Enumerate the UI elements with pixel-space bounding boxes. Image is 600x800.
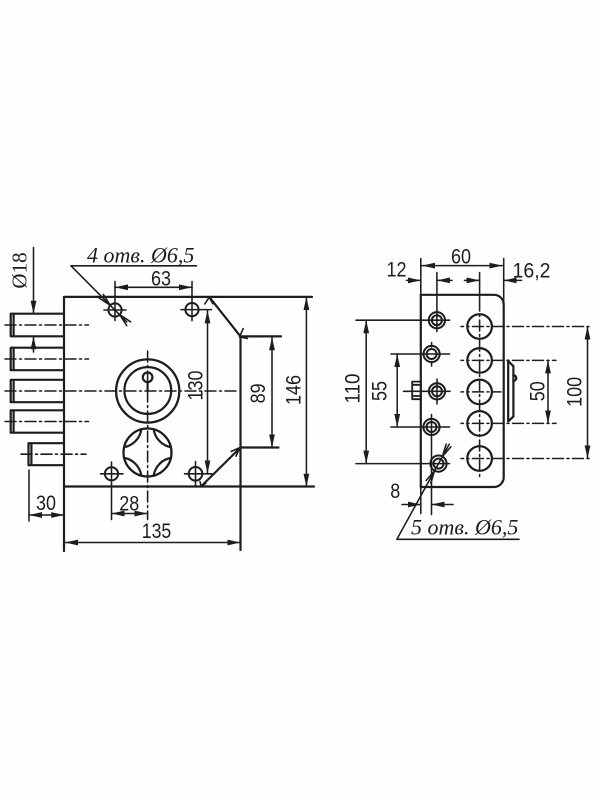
svg-text:16,2: 16,2: [513, 260, 551, 283]
svg-text:63: 63: [151, 268, 171, 291]
svg-text:30: 30: [36, 492, 56, 515]
faceplate outline: [421, 295, 504, 487]
dimension 55: [396, 354, 398, 427]
bolt hole H3: [467, 380, 492, 405]
latch centerline: [21, 453, 86, 455]
dimension 100: [587, 327, 589, 459]
faceplate edge extension lines: [421, 259, 504, 514]
break diagonal bottom: [200, 448, 241, 487]
H4 centerline: [461, 422, 556, 424]
svg-text:28: 28: [119, 492, 139, 515]
screw S2 centerline: [391, 343, 450, 367]
dimension 60: [422, 265, 502, 267]
H1 centerline: [461, 326, 592, 328]
bolt hole H2: [467, 348, 492, 373]
cylinder outer circle: [116, 359, 179, 422]
keyhole circle: [143, 373, 153, 392]
lock body outline: [64, 297, 314, 551]
hole top-left: [104, 282, 126, 321]
cylinder vertical centerline: [147, 351, 149, 520]
svg-text:12: 12: [387, 259, 407, 282]
diameter 18 dimension arrows: [33, 248, 35, 353]
dimension 12: [407, 279, 453, 281]
bolt hole H4: [467, 411, 492, 436]
bolt 3 centerline through cylinder: [5, 390, 240, 392]
H2 centerline: [461, 359, 556, 361]
thumbturn knob circle: [124, 429, 172, 477]
svg-text:50: 50: [527, 381, 550, 401]
dimension 135: [65, 542, 240, 544]
screw S3 centerline: [404, 379, 451, 404]
latch bolt 5: [29, 443, 65, 465]
callout 4 holes leader: [71, 266, 197, 326]
svg-text:5 отв. Ø6,5: 5 отв. Ø6,5: [411, 515, 518, 540]
holes vertical centerline: [479, 273, 481, 479]
svg-text:60: 60: [451, 246, 471, 269]
side bracket: [508, 360, 516, 421]
screw S2: [424, 346, 440, 362]
hole bottom-left: [101, 462, 124, 520]
break diagonal top: [205, 297, 248, 339]
svg-text:89: 89: [247, 383, 270, 403]
H5 centerline: [461, 458, 592, 460]
svg-text:146: 146: [283, 375, 306, 405]
dimension 63: [115, 286, 192, 288]
bolt 4: [11, 410, 64, 432]
dimension 28: [112, 513, 148, 515]
svg-text:100: 100: [564, 377, 587, 407]
H3 centerline: [461, 391, 501, 393]
dimension 89: [271, 337, 273, 447]
screw S1 centerline: [356, 273, 450, 332]
dimension 16,2: [465, 279, 522, 281]
dimension 50: [547, 360, 549, 423]
thumbturn cross curves: [125, 430, 171, 476]
svg-text:Ø18: Ø18: [7, 252, 31, 288]
bolt 2: [11, 348, 64, 371]
svg-text:8: 8: [390, 480, 400, 503]
dimension 110: [365, 320, 367, 463]
bolt 1 centerline: [5, 324, 89, 326]
svg-text:55: 55: [369, 381, 392, 401]
dimension 146: [305, 297, 307, 487]
hole bottom-right: [185, 462, 213, 487]
svg-text:130: 130: [185, 371, 208, 401]
cylinder inner circle: [124, 367, 171, 414]
bolt 4 centerline: [5, 421, 89, 423]
spring tab on faceplate: [412, 382, 421, 400]
bolt 1: [11, 314, 64, 337]
svg-text:110: 110: [342, 374, 365, 404]
svg-text:135: 135: [142, 520, 172, 543]
hole top-right: [181, 282, 212, 321]
screw S5 centerline: [356, 463, 450, 465]
dimension 130: [207, 310, 209, 473]
callout 5 holes leader: [397, 444, 519, 539]
bolt hole H5: [467, 446, 492, 471]
dimension 8: [402, 504, 453, 506]
screw S3: [429, 383, 445, 399]
screw S4: [423, 419, 439, 435]
svg-text:4 отв. Ø6,5: 4 отв. Ø6,5: [87, 243, 194, 268]
screw S1: [429, 312, 445, 328]
screw S4 centerline: [391, 415, 450, 515]
screw S5: [430, 456, 446, 472]
bolt hole H1: [467, 314, 492, 339]
bolt 3: [11, 380, 64, 402]
dimension 30: [29, 470, 64, 521]
bolt 2 centerline: [5, 358, 89, 360]
